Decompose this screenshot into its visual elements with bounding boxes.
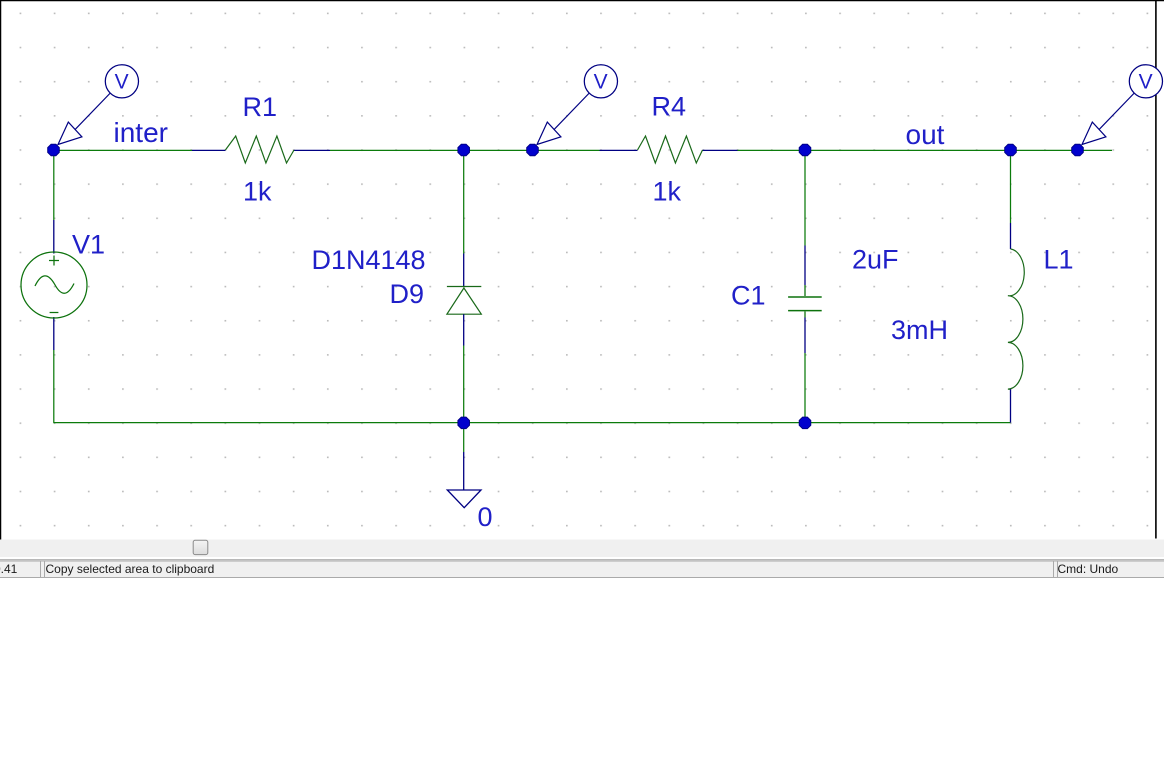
wire top rail: node inter to R1 (54, 149, 193, 151)
wire R1 right to node B (330, 149, 463, 151)
junction bottom node at ground (458, 417, 470, 429)
wire V1 to bottom rail (53, 350, 55, 423)
junction node E (1005, 144, 1017, 156)
svg-text:C1: C1 (731, 281, 766, 311)
svg-text:1k: 1k (243, 177, 272, 207)
resistor R1 zigzag (225, 136, 294, 163)
capacitor C1 symbol (788, 285, 822, 318)
svg-text:V1: V1 (72, 230, 105, 260)
ground 0 symbol (447, 490, 481, 508)
status bar (0, 559, 1164, 561)
svg-text:Copy selected area to clipboar: Copy selected area to clipboard (46, 562, 215, 576)
junction node C (527, 144, 539, 156)
svg-text:R4: R4 (652, 92, 687, 122)
pin C1 top (804, 246, 806, 286)
svg-text:L1: L1 (1044, 245, 1074, 275)
junction node A (inter) (48, 144, 60, 156)
resistor R4 zigzag (638, 136, 703, 163)
svg-text:D9: D9 (390, 279, 425, 309)
pin diode anode (463, 314, 465, 345)
source V1 symbol (21, 252, 87, 318)
svg-text:D1N4148: D1N4148 (312, 245, 426, 275)
wire C1 to bottom rail (804, 353, 806, 423)
voltage probe at node C (537, 65, 618, 145)
wire node B down to diode (463, 150, 465, 253)
wire R4 to node out, node E, node F, right end (738, 149, 1113, 151)
svg-text:V: V (1139, 71, 1153, 94)
resistor R4 pins (600, 149, 638, 151)
junction node F (1072, 144, 1084, 156)
svg-text:inter: inter (114, 117, 168, 148)
wire diode to bottom rail (463, 346, 465, 423)
resistor R1 pins (192, 149, 225, 151)
junction bottom node at C1 (799, 417, 811, 429)
wire node B to node C (463, 149, 533, 151)
diode D9 symbol (447, 287, 481, 315)
svg-text:0.41: 0.41 (0, 562, 18, 576)
wire bottom rail (54, 422, 1011, 424)
svg-text:1k: 1k (653, 177, 682, 207)
pin diode cathode (463, 254, 465, 287)
svg-text:3mH: 3mH (891, 315, 948, 345)
wire node C to R4 (533, 149, 600, 151)
scrollbar band (0, 540, 1164, 558)
pin L1 top (1010, 223, 1012, 249)
pin C1 bottom (804, 318, 806, 354)
pin L1 bottom (1010, 389, 1012, 422)
svg-text:0: 0 (478, 502, 493, 532)
wire node A down to V1 (53, 150, 55, 220)
pin ground (463, 452, 465, 490)
voltage probe at node F (1082, 65, 1163, 145)
wire node D down to C1 (804, 150, 806, 245)
svg-text:V: V (594, 71, 608, 94)
voltage probe at node inter (58, 65, 139, 145)
pin V1 plus (53, 220, 55, 254)
wire node E down to L1 (1010, 150, 1012, 223)
svg-text:out: out (906, 119, 945, 150)
svg-text:Cmd: Undo: Cmd: Undo (1058, 562, 1119, 576)
wire ground stub (463, 423, 465, 452)
pin V1 minus (53, 317, 55, 350)
junction node B (458, 144, 470, 156)
border frame (0, 0, 1164, 1)
svg-text:R1: R1 (243, 92, 278, 122)
svg-text:2uF: 2uF (852, 245, 899, 275)
inductor L1 coil (1008, 249, 1024, 389)
junction node D (out) (799, 144, 811, 156)
svg-text:V: V (115, 71, 129, 94)
